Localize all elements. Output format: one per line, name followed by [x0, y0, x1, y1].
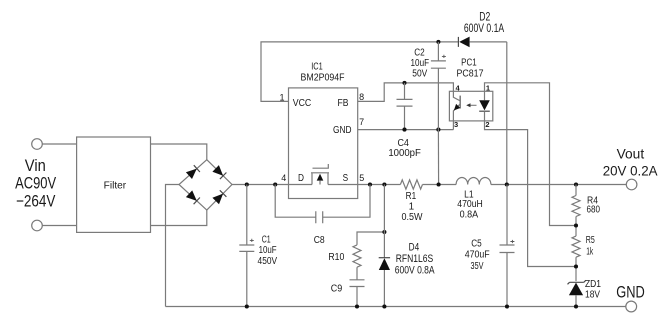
label D2 600V 0.1A — [464, 21, 504, 35]
wire FB (pin 8) to optocoupler — [358, 83, 454, 102]
svg-text:470uH: 470uH — [457, 199, 483, 210]
svg-text:1: 1 — [409, 201, 415, 212]
label ZD1 — [585, 279, 601, 290]
label C1 450V — [258, 256, 278, 267]
wire bridge positive to IC pin 4 — [232, 184, 289, 186]
diode D4 — [379, 258, 390, 307]
label R5 — [586, 235, 595, 246]
transistor (internal MOSFET) body arrow — [317, 174, 324, 185]
junction D2/C5 node — [505, 182, 509, 186]
label C5 35V — [471, 261, 484, 272]
junction C1 bottom — [245, 304, 249, 308]
junction D4 top — [382, 182, 386, 186]
label ZD1 18V — [585, 289, 600, 300]
svg-text:C1: C1 — [262, 234, 271, 245]
svg-text:10uF: 10uF — [259, 245, 277, 256]
label C4 1000pF — [388, 148, 421, 159]
label R4 — [587, 196, 598, 207]
svg-text:S: S — [343, 173, 349, 184]
svg-text:ZD1: ZD1 — [585, 279, 601, 290]
svg-text:10uF: 10uF — [411, 58, 430, 69]
node Vin terminal (bottom AC input) — [32, 220, 43, 231]
wire VCC supply (pin 1) — [261, 42, 458, 102]
junction C1 top — [245, 182, 249, 186]
label R5 1k — [586, 246, 594, 257]
label Filter — [104, 180, 127, 191]
svg-text:RFN1L6S: RFN1L6S — [396, 253, 434, 265]
resistor R10 — [353, 245, 361, 267]
junction R4-R5 — [574, 223, 578, 227]
label D pin — [298, 173, 304, 184]
label C2 — [414, 47, 425, 58]
pin number 5 — [359, 173, 364, 183]
junction D4 bottom — [382, 304, 386, 308]
pin number 3 (PC1) — [454, 120, 458, 129]
label C8 — [314, 235, 325, 246]
svg-text:IC1: IC1 — [311, 61, 323, 72]
wire R10 top to D4 branch — [357, 232, 384, 245]
junction ZD1 bottom — [574, 304, 578, 308]
svg-text:PC817: PC817 — [457, 69, 484, 80]
wire bridge negative to bottom rail — [166, 185, 180, 307]
svg-text:680: 680 — [587, 204, 601, 215]
label 20V 0.2A — [603, 163, 658, 179]
label Vout — [617, 146, 645, 162]
svg-text:1k: 1k — [586, 246, 594, 257]
wire R4 top lead — [575, 185, 577, 196]
wire PC1 pin 1 to R4-R5 junction — [485, 83, 577, 226]
junction R5-ZD1 — [574, 264, 578, 268]
label S pin — [343, 173, 349, 184]
node Vin terminal (top AC input) — [32, 139, 43, 150]
svg-text:20V 0.2A: 20V 0.2A — [603, 163, 658, 179]
pin number 8 — [359, 92, 364, 102]
label C4 — [397, 138, 409, 149]
svg-text:1: 1 — [486, 83, 490, 92]
svg-text:Vout: Vout — [617, 146, 645, 162]
junction C8 right — [368, 182, 372, 186]
capacitor C8 — [275, 185, 370, 224]
svg-text:3: 3 — [454, 120, 458, 129]
svg-text:−264V: −264V — [16, 192, 56, 210]
resistor R1 — [400, 180, 422, 189]
svg-text:D4: D4 — [409, 241, 420, 253]
svg-text:470uF: 470uF — [465, 249, 490, 260]
label R1 — [406, 191, 417, 202]
label C5 470uF — [465, 249, 490, 260]
svg-text:Filter: Filter — [104, 180, 127, 191]
resistor R4 — [572, 196, 580, 217]
label PC817 — [457, 69, 484, 80]
svg-text:PC1: PC1 — [461, 57, 477, 68]
label C2 10uF — [411, 58, 430, 69]
label VCC pin — [293, 98, 312, 109]
transistor (internal MOSFET) drain stub — [311, 173, 313, 184]
LED inside PC1 — [479, 91, 490, 121]
resistor R5 — [572, 236, 580, 257]
label D4 — [409, 241, 420, 253]
junction C2 bottom — [436, 128, 440, 132]
junction C9 bottom — [355, 304, 359, 308]
svg-text:0.5W: 0.5W — [402, 212, 424, 223]
junction C4 bottom — [402, 128, 406, 132]
label C2 50V — [412, 68, 427, 79]
label IC1 — [311, 61, 323, 72]
label C1 10uF — [259, 245, 277, 256]
wire GND node to switching rail — [437, 130, 439, 185]
wire L1 to Vout — [491, 184, 626, 186]
junction R10 wire at D4 — [382, 230, 386, 234]
wire Vin bottom to filter — [42, 225, 76, 227]
bridge diode (left to top) — [186, 165, 200, 179]
svg-text:35V: 35V — [471, 261, 484, 272]
label R1 0.5W — [402, 212, 424, 223]
svg-text:D: D — [298, 173, 304, 184]
wire drain inside IC — [289, 184, 313, 186]
label D4 RFN1L6S — [396, 253, 434, 265]
svg-text:7: 7 — [359, 117, 364, 127]
label D4 600V 0.8A — [395, 264, 435, 276]
capacitor C9 — [350, 267, 365, 306]
node Vout terminal — [626, 179, 637, 190]
zener diode ZD1 — [568, 280, 586, 306]
wire Vin top to filter — [42, 143, 76, 145]
svg-text:C5: C5 — [471, 238, 482, 249]
svg-text:0.8A: 0.8A — [460, 210, 479, 221]
wire D4 cathode — [383, 185, 385, 258]
svg-text:600V 0.8A: 600V 0.8A — [395, 264, 435, 276]
bridge rectifier diamond — [179, 160, 232, 210]
label R4 680 — [587, 204, 601, 215]
transistor (internal MOSFET) gate lead — [313, 164, 329, 168]
label GND output — [616, 284, 645, 302]
label R10 — [328, 252, 344, 263]
capacitor C2 — [431, 42, 446, 130]
bridge diode (top to right) — [212, 165, 226, 179]
svg-text:C9: C9 — [331, 283, 343, 294]
label PC1 — [461, 57, 477, 68]
pin number 4 (PC1) — [456, 83, 461, 92]
svg-text:450V: 450V — [258, 256, 278, 267]
wire PC1 pin 2 to R5-ZD1 junction — [485, 121, 577, 267]
label AC90V — [15, 175, 56, 193]
capacitor C1 — [239, 185, 254, 307]
svg-text:R1: R1 — [406, 191, 417, 202]
junction R4 top — [574, 182, 578, 186]
op-amp U1 IC1 BM2P094F box — [289, 88, 358, 199]
svg-text:4: 4 — [281, 173, 286, 183]
wire D2 anode to output rail — [506, 42, 508, 185]
capacitor C4 — [397, 83, 413, 130]
wire R5-ZD1 junction — [575, 257, 577, 281]
svg-text:BM2P094F: BM2P094F — [301, 73, 345, 84]
pin number 4 — [281, 173, 286, 183]
label Vin — [25, 157, 46, 175]
transistor (internal MOSFET) gate plate — [311, 172, 329, 174]
svg-text:Vin: Vin — [25, 157, 46, 175]
bridge diode (bottom to right) — [212, 190, 226, 204]
svg-text:600V 0.1A: 600V 0.1A — [464, 21, 504, 35]
phototransistor inside PC1 — [453, 91, 460, 121]
svg-text:18V: 18V — [585, 289, 600, 300]
wire source (pin 5) rail — [358, 184, 401, 186]
bridge diode (left to bottom) — [186, 190, 200, 204]
svg-text:FB: FB — [338, 98, 349, 109]
svg-text:8: 8 — [359, 92, 364, 102]
junction C8 left — [273, 182, 277, 186]
wire filter to bridge top AC node — [151, 144, 207, 160]
label C9 — [331, 283, 343, 294]
svg-text:5: 5 — [359, 173, 364, 183]
wire R4-R5 junction — [575, 217, 577, 237]
svg-text:VCC: VCC — [293, 98, 312, 109]
svg-text:R5: R5 — [586, 235, 595, 246]
pin number 7 — [359, 117, 364, 127]
filter block — [77, 137, 151, 232]
node GND terminal — [626, 301, 637, 312]
svg-text:2: 2 — [485, 120, 489, 129]
label -264V — [16, 192, 56, 210]
diode D2 — [458, 37, 506, 48]
junction C5 bottom — [505, 304, 509, 308]
label L1 0.8A — [460, 210, 479, 221]
wire source inside IC — [328, 184, 358, 186]
pin number 1 — [279, 93, 284, 103]
junction C2 top — [436, 40, 440, 44]
label L1 — [464, 190, 474, 201]
svg-text:GND: GND — [333, 125, 352, 136]
svg-text:GND: GND — [616, 284, 645, 302]
label C5 — [471, 238, 482, 249]
svg-text:C8: C8 — [314, 235, 325, 246]
label C1 — [262, 234, 271, 245]
label D2 — [479, 10, 490, 24]
svg-text:AC90V: AC90V — [15, 175, 56, 193]
label L1 470uH — [457, 199, 483, 210]
svg-text:1000pF: 1000pF — [388, 148, 421, 159]
svg-text:50V: 50V — [412, 68, 427, 79]
label GND pin — [333, 125, 352, 136]
label R1 value 1 — [409, 201, 415, 212]
wire filter to bridge bottom AC node — [151, 210, 207, 226]
pin number 2 (PC1) — [485, 120, 489, 129]
optocoupler PC1 box — [449, 91, 492, 121]
pin number 1 (PC1) — [486, 83, 490, 92]
junction C4 top — [402, 81, 406, 85]
wire GND (pin 7) to optocoupler pin 3 — [358, 121, 454, 130]
transistor (internal MOSFET) source stub — [327, 173, 329, 184]
label BM2P094F — [301, 73, 345, 84]
svg-text:C2: C2 — [414, 47, 425, 58]
label FB pin — [338, 98, 349, 109]
wire bottom rail (ground return) — [166, 306, 626, 308]
capacitor C5 — [500, 185, 515, 307]
junction GND-rail tie — [437, 182, 441, 186]
wire R1 to L1 — [423, 184, 457, 186]
svg-text:R10: R10 — [328, 252, 344, 263]
light arrow inside PC1 — [466, 103, 476, 107]
inductor L1 — [456, 178, 491, 185]
